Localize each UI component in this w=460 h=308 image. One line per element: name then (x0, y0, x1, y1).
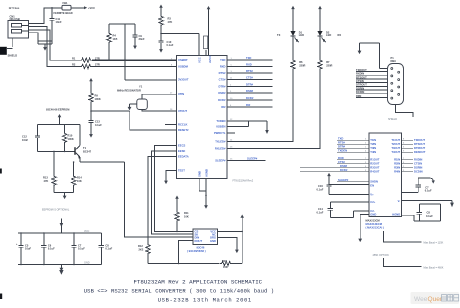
svg-text:FERRITE BEAD: FERRITE BEAD (54, 11, 73, 15)
net SLEEP# (227, 157, 266, 161)
svg-text:EEPROM IS OPTIONAL: EEPROM IS OPTIONAL (42, 209, 70, 212)
svg-text:220R: 220R (326, 63, 332, 67)
resonator Y1 6MHz (117, 85, 177, 111)
net RTS# (227, 69, 273, 73)
svg-text:47K: 47K (168, 20, 173, 24)
svg-text:RX: RX (338, 33, 342, 37)
capacitor C8 loop (402, 204, 441, 221)
net DTR# (227, 83, 273, 87)
svg-text:RXLED#: RXLED# (215, 147, 226, 151)
net RI# (227, 103, 273, 107)
svg-text:AVCC: AVCC (208, 56, 212, 63)
svg-text:100K: 100K (95, 97, 101, 101)
svg-text:C2+: C2+ (370, 200, 375, 204)
svg-text:93C46-66 EEPROM: 93C46-66 EEPROM (46, 108, 69, 112)
wire base (38, 151, 76, 153)
wire USB D- (28, 27, 80, 67)
svg-text:RTS#: RTS# (246, 69, 253, 73)
svg-text:USB <=> RS232 SERIAL CONVERTER: USB <=> RS232 SERIAL CONVERTER ( 300 to … (84, 288, 274, 295)
svg-text:CTSIN: CTSIN (356, 79, 364, 83)
svg-text:USBDP: USBDP (178, 58, 188, 62)
svg-text:455K OPTION: 455K OPTION (373, 254, 389, 257)
svg-text:R2IN: R2IN (394, 162, 400, 166)
U2 left output stubs (300, 156, 369, 172)
svg-text:GND: GND (198, 171, 202, 177)
svg-text:DTR#: DTR# (338, 144, 346, 148)
svg-text:TXDEN: TXDEN (338, 148, 347, 152)
connector P1 DB9 (388, 56, 404, 104)
svg-text:TXDOUT: TXDOUT (414, 138, 425, 142)
ground usb (37, 41, 39, 44)
wire EEDATA down (148, 157, 177, 243)
svg-text:47K: 47K (44, 179, 49, 183)
svg-text:RXD: RXD (338, 156, 344, 160)
svg-text:0.1uF: 0.1uF (78, 247, 85, 251)
svg-text:DCDIN: DCDIN (356, 90, 364, 94)
U2 right input stubs (402, 158, 423, 174)
svg-text:RTS#: RTS# (338, 140, 345, 144)
svg-text:DENOUT: DENOUT (414, 150, 426, 154)
svg-text:RI#: RI# (221, 105, 226, 109)
svg-text:RXDIN: RXDIN (414, 158, 422, 162)
svg-text:GND: GND (370, 213, 376, 217)
wire VBUS pin to ferrite (28, 8, 62, 24)
svg-text:CTSIN: CTSIN (414, 162, 422, 166)
U2 right output stubs (402, 138, 426, 154)
capacitor C13 470pF (88, 111, 102, 138)
IC U3 93C46 (187, 229, 218, 253)
svg-text:R3IN: R3IN (394, 166, 400, 170)
resistor R11 pullup (175, 196, 189, 233)
svg-text:MAX213ECM: MAX213ECM (366, 222, 383, 226)
svg-text:10nF: 10nF (56, 20, 62, 24)
svg-text:DB9: DB9 (391, 59, 397, 63)
svg-text:T2IN: T2IN (370, 142, 376, 146)
svg-text:33nF: 33nF (139, 37, 145, 41)
svg-text:R2: R2 (72, 63, 76, 67)
svg-text:MAX213CM: MAX213CM (366, 219, 380, 223)
svg-text:0.1uF: 0.1uF (425, 189, 432, 193)
net DCD# (227, 96, 273, 100)
capacitor C11 (49, 8, 62, 44)
svg-text:EN: EN (370, 184, 374, 188)
U2 pin labels inside (370, 138, 400, 217)
wire U3 VCC (218, 215, 245, 264)
U1 right pin labels (214, 58, 226, 162)
wire TXLED# (227, 71, 293, 142)
ground U2 (358, 215, 369, 243)
svg-text:1K5: 1K5 (113, 37, 118, 41)
ground DB9 shell (358, 43, 388, 69)
svg-text:SHIELD: SHIELD (8, 53, 18, 57)
svg-text:0.1uF: 0.1uF (48, 247, 55, 251)
svg-text:RXDIN: RXDIN (356, 72, 364, 76)
svg-text:DCD#: DCD# (218, 98, 226, 102)
svg-text:FT8U232AM Rev 2 APPLICATION SC: FT8U232AM Rev 2 APPLICATION SCHEMATIC (133, 279, 262, 286)
USB connector CN1 (8, 21, 29, 39)
svg-text:SLEEP#: SLEEP# (215, 159, 226, 163)
svg-text:LED: LED (299, 33, 304, 37)
svg-text:SLEEP#: SLEEP# (247, 157, 258, 161)
svg-text:T1OUT: T1OUT (391, 138, 400, 142)
svg-text:SHDN: SHDN (370, 180, 378, 184)
capacitor C14 charge pump (317, 202, 370, 217)
supply VCC LED2 (318, 6, 322, 31)
ground transistor (54, 193, 74, 200)
resistor R3 (159, 10, 173, 27)
svg-text:0.1uF: 0.1uF (426, 214, 433, 218)
svg-text:VCC: VCC (84, 230, 89, 233)
svg-text:TXLED#: TXLED# (215, 140, 226, 144)
svg-text:DIN: DIN (195, 235, 200, 239)
svg-text:DSR#: DSR# (218, 91, 226, 95)
ground rail (59, 261, 90, 274)
svg-text:TXDOUT: TXDOUT (356, 68, 367, 72)
node RCCLK junction (90, 104, 176, 131)
svg-text:USBEN: USBEN (216, 125, 225, 129)
svg-text:EEDATA: EEDATA (178, 155, 189, 159)
capacitor C7 bracket (402, 178, 435, 193)
wire RCCLK stub (165, 124, 177, 126)
svg-text:R1: R1 (72, 56, 76, 60)
edge mark 2 (0, 169, 2, 174)
svg-text:Max Baud = 460K: Max Baud = 460K (424, 266, 444, 269)
resistor R15 in DOUT pullup (148, 259, 242, 269)
svg-text:R4IN: R4IN (394, 170, 400, 174)
resistor R14 (71, 162, 82, 193)
svg-text:HGND: HGND (392, 213, 400, 217)
svg-text:XTIN: XTIN (178, 92, 184, 96)
svg-text:SHIELD: SHIELD (388, 118, 397, 121)
svg-text:T4IN: T4IN (370, 150, 376, 154)
wire RXLED# (227, 71, 320, 149)
svg-text:AGND: AGND (205, 169, 209, 177)
ferrite bead FB1 (54, 1, 73, 15)
svg-text:DCD#: DCD# (246, 96, 254, 100)
svg-text:PWRCTL: PWRCTL (214, 131, 226, 135)
svg-text:100K: 100K (68, 137, 74, 141)
svg-text:10nF: 10nF (22, 138, 28, 142)
svg-text:RTSOUT: RTSOUT (356, 75, 367, 79)
svg-text:DTR#: DTR# (246, 83, 254, 87)
svg-text:DCD#: DCD# (340, 168, 348, 172)
shield block (0, 38, 17, 57)
capacitor C8 (99, 233, 113, 265)
watermark (411, 292, 460, 304)
svg-text:ORG: ORG (210, 235, 216, 239)
net TXD (227, 56, 273, 60)
wire U3 ORG to ground (218, 237, 239, 253)
capacitor C10 (158, 34, 173, 53)
svg-text:V-: V- (398, 199, 401, 203)
U2 pin numbers (365, 139, 405, 173)
svg-text:RESET#: RESET# (178, 128, 189, 132)
net RXD (227, 63, 273, 67)
svg-text:T4OUT: T4OUT (391, 150, 400, 154)
wire EESK down (151, 151, 193, 234)
DB9 signal wires (356, 68, 388, 98)
node R3 C10 junction (160, 27, 199, 56)
svg-text:CTS#: CTS# (246, 76, 253, 80)
wire max baud 460k (384, 258, 444, 270)
supply VCC transistor rail (58, 114, 62, 125)
svg-text:CTS#: CTS# (219, 78, 226, 82)
svg-text:RIIN: RIIN (356, 94, 361, 98)
svg-text:T3OUT: T3OUT (391, 146, 400, 150)
svg-text:93C46: 93C46 (197, 245, 205, 249)
svg-text:220R: 220R (299, 63, 305, 67)
supply VCC LED1 (291, 6, 295, 31)
svg-text:0.1uF: 0.1uF (317, 187, 324, 191)
svg-text:12 V bus: 12 V bus (9, 6, 20, 10)
svg-text:R4OUT: R4OUT (370, 170, 379, 174)
wire max baud 115k (384, 231, 444, 245)
resistor R6 (291, 59, 306, 71)
IC U2 MAX213 body (369, 133, 402, 217)
wire FB1 to VCC (71, 6, 95, 10)
node USBDP pullup junction (108, 59, 110, 61)
LED D2 RX (317, 30, 341, 58)
svg-text:3V3OUT: 3V3OUT (178, 77, 189, 81)
svg-text:R1OUT: R1OUT (370, 158, 379, 162)
wire TXDEN USBEN join (227, 121, 269, 134)
resistor R4 1K5 pullup (107, 24, 118, 60)
svg-text:( MAX213CAI ): ( MAX213CAI ) (366, 226, 384, 230)
svg-text:USBDM: USBDM (178, 65, 189, 69)
LED D1 TX (277, 30, 304, 58)
svg-text:FT8U232AM Rev2: FT8U232AM Rev2 (233, 179, 254, 182)
svg-text:R2OUT: R2OUT (370, 162, 379, 166)
svg-text:TXD: TXD (338, 136, 343, 140)
resistor R9 (89, 83, 101, 104)
svg-text:DTR#: DTR# (218, 85, 226, 89)
svg-text:DTROUT: DTROUT (414, 146, 426, 150)
U1 top pin names (198, 56, 213, 63)
svg-text:2K2: 2K2 (139, 247, 144, 251)
svg-text:RTSOUT: RTSOUT (414, 142, 425, 146)
svg-text:RXD: RXD (220, 65, 226, 69)
svg-text:BC547: BC547 (83, 149, 92, 153)
svg-text:USB-232B 13th March 2001: USB-232B 13th March 2001 (158, 297, 252, 304)
svg-text:VCC: VCC (198, 57, 202, 63)
svg-text:ON-USB: ON-USB (10, 17, 20, 21)
svg-text:EECS: EECS (178, 144, 186, 148)
svg-text:10K: 10K (223, 265, 228, 269)
transistor T1 (74, 125, 91, 162)
net CTS# (227, 76, 273, 80)
wire USB GND (28, 33, 52, 41)
edge mark (0, 294, 2, 300)
svg-text:0.1uF: 0.1uF (105, 247, 112, 251)
svg-text:0.1uF: 0.1uF (317, 210, 324, 214)
svg-text:10uF: 10uF (25, 247, 31, 251)
capacitor C12 (22, 125, 40, 152)
svg-text:TXD: TXD (220, 58, 225, 62)
svg-text:DSR#: DSR# (340, 164, 348, 168)
svg-text:XTOUT: XTOUT (178, 109, 187, 113)
decoupling rail top (18, 232, 102, 234)
svg-text:V+: V+ (370, 192, 374, 196)
capacitor C6 (41, 232, 55, 265)
supply VCC U1 top (204, 6, 211, 55)
svg-text:CTS#: CTS# (338, 160, 345, 164)
node VBUS junction (51, 7, 53, 9)
svg-text:+VCC: +VCC (88, 6, 95, 10)
svg-text:SLEEP#: SLEEP# (338, 178, 349, 182)
wire DB9 shield drop (388, 105, 413, 122)
net DSR# (227, 89, 273, 93)
svg-text:( 93C46/56/66 ): ( 93C46/56/66 ) (187, 249, 206, 253)
wire USBDM to U1 (92, 66, 177, 68)
svg-text:Y1: Y1 (139, 85, 143, 89)
svg-text:C2-: C2- (370, 209, 374, 213)
svg-text:0.1uF: 0.1uF (167, 43, 174, 47)
svg-text:0.1uF: 0.1uF (95, 123, 102, 127)
svg-text:R3OUT: R3OUT (370, 166, 379, 170)
resistor R12 (138, 243, 150, 264)
svg-text:T3IN: T3IN (370, 146, 376, 150)
svg-text:TX: TX (277, 33, 281, 37)
svg-text:LED: LED (326, 33, 331, 37)
svg-text:DSR#: DSR# (246, 89, 254, 93)
resistor R10 (62, 125, 73, 152)
svg-text:WeeQuer: WeeQuer (414, 296, 443, 303)
svg-text:TXD: TXD (246, 56, 251, 60)
U1 pin numbers (170, 58, 233, 160)
svg-text:RXD: RXD (246, 63, 252, 67)
svg-text:TXDEN: TXDEN (216, 119, 225, 123)
svg-text:DSRIN: DSRIN (356, 86, 364, 90)
label MAX213 (366, 219, 384, 230)
capacitor C5 (16, 232, 31, 265)
op-amp U1 FT8U232AM body (177, 55, 228, 178)
svg-text:GND: GND (84, 261, 90, 264)
svg-text:Max Baud = 115K: Max Baud = 115K (424, 242, 444, 245)
resistor R2 (72, 63, 100, 69)
decoupling rail bottom (18, 264, 102, 266)
supply VCC R3 column (159, 5, 163, 10)
wire collector out (73, 161, 125, 163)
U1 left pin labels (178, 58, 189, 172)
U1 bottom pin names (198, 169, 209, 177)
svg-text:T2OUT: T2OUT (391, 142, 400, 146)
svg-text:DCDIN: DCDIN (414, 170, 423, 174)
svg-text:6MHz RESONATOR: 6MHz RESONATOR (117, 88, 141, 92)
svg-text:DSRIN: DSRIN (414, 166, 422, 170)
resistor R1 (72, 56, 100, 62)
wire EECS down (154, 146, 193, 232)
svg-text:RCCLK: RCCLK (178, 123, 187, 127)
capacitor C9 33nF (132, 24, 145, 49)
svg-text:R1IN: R1IN (394, 158, 400, 162)
wire USBDP to U1 (92, 59, 177, 61)
svg-text:DTROUT: DTROUT (356, 83, 367, 87)
U2 SHDN stub (337, 178, 369, 182)
svg-text:10K: 10K (184, 214, 189, 218)
svg-text:FB1: FB1 (63, 1, 68, 5)
wire USB D+ (28, 30, 80, 60)
label CN1 ON-USB (9, 6, 20, 21)
resistor R7 (318, 59, 333, 71)
svg-text:R15: R15 (222, 259, 227, 263)
wire transistor rail (38, 124, 81, 126)
capacitor C7 (71, 232, 85, 265)
svg-text:T1IN: T1IN (370, 138, 376, 142)
wire DOUT (179, 241, 193, 264)
svg-text:RI#: RI# (246, 103, 251, 107)
svg-text:DOUT: DOUT (195, 239, 203, 243)
svg-text:GND: GND (210, 239, 216, 243)
supply VCC R9 column (89, 78, 93, 83)
wire TEST to ground (164, 170, 176, 184)
svg-text:TEST: TEST (178, 168, 185, 172)
ground U1 bottom (199, 179, 208, 209)
capacitor C16 on U2 VCC (317, 173, 370, 195)
wire U2 V- ground (402, 201, 454, 208)
wire 3V3OUT rail (109, 24, 177, 80)
svg-text:EESK: EESK (178, 149, 185, 153)
svg-text:RTS#: RTS# (219, 71, 226, 75)
svg-text:10K: 10K (77, 179, 82, 183)
supply VCC into rail (60, 219, 90, 234)
resistor R13 (43, 151, 56, 193)
U2 left input stubs (337, 136, 369, 152)
wire DIN from transistor (125, 162, 194, 237)
